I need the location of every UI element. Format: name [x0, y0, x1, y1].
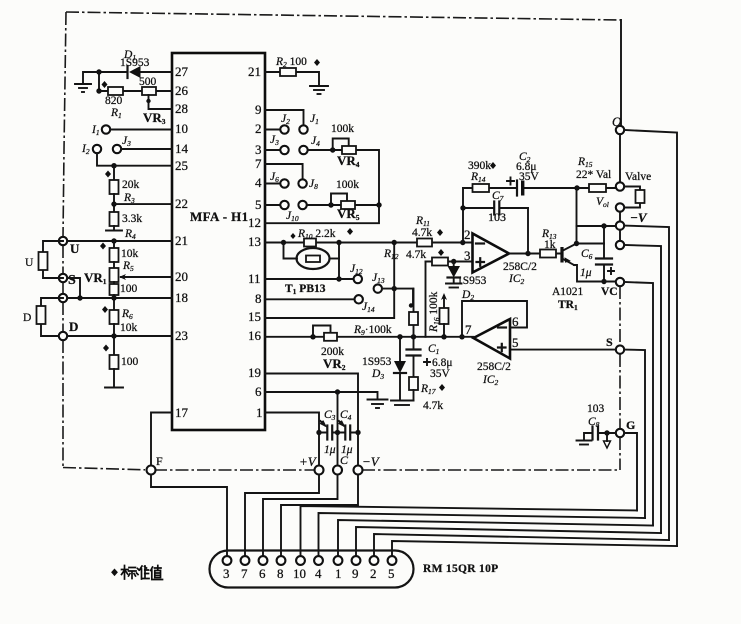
svg-text:MFA - H1: MFA - H1	[190, 209, 249, 224]
wire to ground (pin27)	[83, 72, 99, 84]
svg-text:16: 16	[248, 328, 262, 343]
capacitor C8 103	[593, 427, 599, 440]
wire valve bottom to -V terminal	[619, 212, 621, 222]
junction VR5 right	[376, 202, 381, 207]
wire 100 to pin18 row	[113, 295, 115, 310]
junction op1 output	[525, 251, 530, 256]
wire F to connector pin3	[151, 475, 227, 557]
wire J13 to net	[382, 289, 413, 305]
svg-text:S: S	[606, 335, 613, 349]
svg-text:13: 13	[248, 234, 261, 249]
svg-text:R10 2.2k: R10 2.2k	[297, 228, 336, 241]
junction T1 right	[336, 240, 341, 245]
svg-text:11: 11	[248, 271, 261, 286]
svg-text:U: U	[70, 241, 80, 256]
junction caps row mid	[335, 430, 340, 435]
terminal J10	[298, 201, 306, 209]
test point arrowhead	[604, 441, 611, 448]
connector pin 1	[334, 556, 343, 565]
svg-text:2: 2	[255, 121, 262, 136]
svg-text:21: 21	[175, 233, 188, 248]
wire C6 vertical top	[603, 226, 605, 258]
wire R14 row	[463, 187, 577, 189]
op2 minus sign	[498, 326, 506, 328]
wire pin22 row	[114, 203, 172, 205]
svg-text:1S953: 1S953	[457, 275, 487, 287]
svg-text:18: 18	[175, 290, 188, 305]
svg-text:R9·100k: R9·100k	[353, 324, 392, 337]
connector pin 10	[296, 556, 305, 565]
junction C7 left	[460, 205, 465, 210]
terminal J3	[113, 145, 121, 153]
wire C1 chain	[413, 337, 415, 349]
svg-text:4: 4	[255, 175, 262, 190]
svg-text:4.7k: 4.7k	[406, 249, 426, 261]
enclosure boundary right (lower part)	[619, 286, 621, 345]
svg-text:10k: 10k	[120, 322, 138, 334]
junction op1 pin2	[460, 240, 465, 245]
op-amp IC2b	[474, 319, 511, 359]
standard-value mark (R12)	[438, 249, 444, 256]
enclosure boundary top	[66, 12, 621, 20]
wire connector pin10 to G	[301, 506, 638, 556]
svg-text:5: 5	[388, 566, 395, 581]
svg-text:Valve: Valve	[625, 171, 651, 183]
diode D2 1S953	[448, 262, 461, 284]
svg-text:1μ: 1μ	[324, 444, 336, 456]
resistor R13 1k	[540, 250, 556, 258]
wire +V to connector pin7	[245, 475, 319, 557]
IC U1 MFA-H1 body	[172, 53, 265, 430]
wire pin21R row	[265, 72, 319, 85]
capacitor C2 6.8u	[517, 181, 524, 196]
wire R16 arrow	[443, 296, 445, 308]
wire pin10 row	[110, 129, 172, 131]
connector pin 5	[388, 556, 397, 565]
wire connector pin1 to VC	[338, 520, 653, 556]
polarity arrow (C3)	[321, 421, 326, 426]
junction pin23 chain	[111, 333, 116, 338]
svg-text:RM 15QR 10P: RM 15QR 10P	[423, 563, 498, 575]
VR5 wiper loop	[331, 194, 347, 206]
junction VR5 wiper	[328, 202, 333, 207]
svg-text:26: 26	[175, 83, 189, 98]
terminal J12	[354, 275, 362, 283]
svg-text:28: 28	[175, 101, 188, 116]
svg-text:T1 PB13: T1 PB13	[285, 283, 326, 296]
svg-text:F: F	[156, 454, 163, 468]
svg-text:35V: 35V	[430, 368, 451, 380]
wire C-net vertical	[337, 392, 339, 466]
terminal J14	[355, 295, 363, 303]
wire I2 down to pin25 row	[97, 153, 114, 166]
svg-text:15: 15	[248, 309, 261, 324]
wire 100 to ground	[113, 369, 115, 387]
resistor R11 4.7k*	[417, 239, 432, 247]
svg-text:R2 100: R2 100	[275, 56, 307, 69]
standard-value mark (R6)	[102, 306, 108, 313]
svg-text:3.3k: 3.3k	[122, 213, 142, 225]
arrowhead R16	[441, 293, 447, 300]
svg-text:4.7k: 4.7k	[412, 227, 432, 239]
ground (D2)	[446, 284, 462, 288]
junction T1 left	[281, 240, 286, 245]
junction pin11 row	[336, 276, 341, 281]
junction D3 top	[397, 334, 402, 339]
resistor R9 100k (vertical)	[409, 289, 418, 337]
wire G row left to C8	[599, 432, 616, 434]
capacitor C3 1u	[327, 426, 332, 440]
wire pin4 row	[265, 183, 280, 185]
wire S to pin18 row	[67, 278, 80, 298]
svg-text:8: 8	[255, 291, 262, 306]
junction S-branch	[77, 295, 82, 300]
resistor R10 2.2k*	[304, 239, 316, 247]
wire pin3 row	[265, 149, 280, 151]
svg-text:25: 25	[175, 158, 188, 173]
wire -V terminal right to nest	[624, 226, 669, 540]
svg-text:258C/2: 258C/2	[503, 261, 537, 273]
wire VC right to nest	[624, 282, 653, 526]
wire J13 down to pin15 row	[265, 289, 394, 318]
resonator T1 PB13	[297, 248, 330, 269]
svg-text:O: O	[612, 114, 622, 129]
svg-text:9: 9	[255, 102, 262, 117]
wiper dot VR3	[146, 99, 150, 103]
wire op1 output	[509, 253, 540, 255]
wire pin14 row	[121, 148, 172, 150]
wire C1 to R17	[413, 356, 415, 378]
ground (R4)	[106, 230, 122, 232]
standard-value mark (R1)	[102, 81, 108, 88]
terminal I1	[102, 125, 110, 133]
wire S row to op2	[510, 349, 616, 351]
svg-text:258C/2: 258C/2	[477, 361, 511, 373]
ground (D3/R17)	[391, 401, 414, 406]
svg-text:22* Val: 22* Val	[576, 169, 611, 181]
terminal valve bottom	[616, 203, 624, 211]
wire pin17 to F	[151, 413, 172, 467]
terminal I2	[93, 145, 101, 153]
svg-text:1k: 1k	[544, 239, 556, 251]
wire C to connector pin6	[263, 475, 338, 557]
ground (C8)	[577, 441, 592, 445]
junction pin13/J13 vertical	[392, 240, 397, 245]
enclosure boundary left	[63, 12, 66, 237]
resistor R12 4.7k*	[432, 258, 448, 266]
op-amp IC2a	[473, 234, 510, 273]
potentiometer VR4 100k	[342, 146, 356, 154]
junction pin27/ground	[96, 69, 101, 74]
wire VR1 to 100	[113, 282, 115, 284]
wire R4 to ground	[113, 226, 115, 230]
wire pin6 row	[265, 392, 378, 399]
terminal U	[59, 237, 67, 245]
plus mark (C2)	[507, 178, 514, 185]
op1 plus sign	[477, 258, 485, 266]
svg-text:22: 22	[175, 196, 188, 211]
svg-text:6: 6	[255, 384, 262, 399]
junction R15 left	[574, 185, 579, 190]
wire pin11 row	[265, 278, 354, 280]
junction op2 output	[459, 334, 464, 339]
svg-text:1: 1	[256, 405, 263, 420]
connector pin 9	[352, 556, 361, 565]
junction collector row	[574, 241, 579, 246]
junction R16 bottom	[441, 334, 446, 339]
wire pin12 row	[265, 205, 379, 223]
svg-text:10: 10	[293, 566, 306, 581]
wire O to right nest	[624, 130, 677, 546]
ground (top-left)	[75, 84, 91, 92]
standard-value mark (R5)	[100, 243, 106, 250]
wire pin13 to J13 vertical	[393, 243, 395, 289]
terminal -V bottom	[354, 466, 363, 475]
svg-text:VC: VC	[601, 286, 618, 298]
resistor R3 20k	[110, 180, 119, 194]
capacitor C4 1u	[345, 426, 350, 440]
wire -V node row	[577, 225, 616, 227]
wire connector pin4 to S	[319, 513, 646, 556]
resistor D (left of boundary)	[37, 298, 64, 336]
VR2 wiper loop	[313, 326, 331, 337]
svg-text:20: 20	[175, 269, 188, 284]
potentiometer VR3 500	[142, 87, 156, 95]
wire R15 row	[577, 187, 616, 189]
standard-value mark (R11)	[437, 229, 443, 236]
ground (pin6)	[368, 400, 388, 409]
connector pin 2	[370, 556, 379, 565]
svg-text:A1021: A1021	[552, 286, 584, 298]
connector pin 8	[277, 556, 286, 565]
connector pin 7	[241, 556, 250, 565]
diode D1 1S953	[128, 66, 141, 78]
terminal -V right	[616, 221, 624, 229]
wire pin8 row	[265, 298, 355, 300]
terminal O	[616, 126, 624, 134]
standard-value mark (R14)	[490, 162, 496, 169]
svg-text:21: 21	[248, 64, 261, 79]
svg-text:100: 100	[120, 283, 138, 295]
wire junction down to pin26 row	[98, 72, 100, 91]
standard-value mark (R2)	[314, 59, 320, 66]
wire S right to nest	[624, 350, 645, 518]
wire pin18 row	[67, 297, 172, 299]
op2 plus sign	[498, 344, 506, 351]
standard-value mark (R10 left)	[290, 233, 295, 239]
resistor R1 820	[108, 87, 123, 95]
svg-text:17: 17	[175, 405, 189, 420]
svg-text:35V: 35V	[519, 171, 540, 183]
svg-text:5: 5	[255, 197, 262, 212]
svg-text:100k: 100k	[336, 179, 359, 191]
enclosure boundary bottom	[63, 468, 145, 470]
transistor TR1 A1021	[562, 244, 577, 266]
terminal D	[59, 332, 67, 340]
wire pin25 row	[114, 165, 172, 167]
wire J4 to VR4	[308, 150, 379, 205]
wire pin13 row	[265, 242, 473, 244]
svg-text:100k: 100k	[331, 123, 354, 135]
resistor R4 3.3k	[110, 212, 119, 226]
wire -V to connector pin8	[281, 475, 358, 557]
wire pin26 row	[99, 90, 172, 92]
wire pin9 row	[265, 110, 304, 125]
svg-text:−V: −V	[362, 454, 381, 469]
wire pin25 junction down to R3	[113, 166, 115, 180]
terminal valve top	[616, 182, 624, 190]
wire R3 to pin22 junction	[113, 194, 115, 212]
VR1 wiper wire to pin20	[121, 276, 172, 278]
svg-text:5: 5	[512, 335, 519, 350]
trimmer R16 100k	[440, 308, 449, 337]
standard-value mark (R17)	[439, 384, 445, 391]
wire R13 row	[540, 253, 562, 255]
junction pin18 chain	[111, 295, 116, 300]
resistor R14 390k*	[473, 184, 490, 192]
ground (bottom 100)	[105, 387, 123, 389]
svg-text:6: 6	[259, 566, 266, 581]
wire pin7 row	[265, 164, 303, 179]
junction C6 top	[601, 223, 606, 228]
wire G right to nest	[624, 433, 637, 511]
ground (R2)	[310, 86, 328, 94]
terminal VC	[616, 278, 624, 286]
wire collector up to R15 row	[576, 188, 578, 244]
resistor R17 4.7k	[409, 377, 418, 390]
wire caps row	[319, 432, 358, 434]
svg-text:820: 820	[105, 95, 123, 107]
terminal G	[616, 429, 624, 437]
junction VC row	[601, 279, 606, 284]
junction C8 arrow	[604, 430, 609, 435]
terminal (D loop upper)	[59, 294, 67, 302]
wire C7 feedback row	[463, 188, 528, 243]
standard-value mark (R10)	[347, 228, 353, 235]
diode D3 1S953	[394, 337, 406, 400]
standard-value legend mark	[111, 569, 118, 577]
terminal C	[333, 466, 342, 475]
wire O net top	[620, 20, 621, 182]
svg-text:G: G	[626, 418, 635, 432]
wire pin2 row	[265, 129, 280, 131]
wire R17 to ground rail	[413, 390, 415, 401]
potentiometer VR1	[110, 268, 119, 282]
svg-text:4.7k: 4.7k	[423, 400, 443, 412]
test point arrow (G)	[606, 433, 608, 441]
terminal +V	[315, 466, 324, 475]
connector pin 6	[259, 556, 268, 565]
wire R6 to pin23 row	[113, 324, 115, 355]
wire -V vertical	[357, 433, 359, 466]
wire pin23 row	[67, 335, 172, 337]
polarity arrow (C4)	[339, 421, 344, 426]
svg-text:9: 9	[352, 566, 359, 581]
wire J10 to VR5	[307, 204, 379, 206]
svg-text:+V: +V	[299, 454, 318, 469]
junction VR4 wiper	[330, 147, 335, 152]
VR4 wiper loop	[333, 139, 349, 151]
legend text biao zhun zhi (drawn strokes)	[122, 566, 163, 580]
op1 minus sign	[476, 242, 484, 244]
svg-text:−V: −V	[630, 210, 648, 225]
terminal J8	[298, 179, 306, 187]
terminal J4	[299, 146, 307, 154]
terminal J13	[374, 284, 382, 292]
svg-text:12: 12	[248, 215, 261, 230]
connector pin 4	[314, 556, 323, 565]
capacitor C1 6.8u	[407, 350, 421, 356]
svg-text:D: D	[23, 312, 31, 324]
wire C6 bottom to VC row	[603, 265, 605, 282]
terminal F	[147, 466, 156, 475]
wire pin27 row	[99, 71, 172, 73]
wire C8 to ground	[584, 433, 593, 440]
capacitor C6 1u	[596, 259, 612, 265]
svg-text:D: D	[69, 319, 78, 334]
wire R12 row	[426, 261, 473, 263]
VR3 wiper to pin28	[149, 95, 173, 109]
wire connector pin5 to O	[392, 541, 677, 556]
terminal J9	[280, 201, 288, 209]
svg-text:1S953: 1S953	[120, 57, 150, 69]
standard-value mark (R9)	[409, 303, 413, 307]
resistor R2 100*	[280, 68, 296, 76]
resistor 100 (VR1 bottom)	[110, 284, 119, 295]
junction J13	[392, 286, 397, 291]
svg-text:7: 7	[255, 156, 262, 171]
wire connector pin9 to n2	[356, 527, 661, 556]
svg-text:500: 500	[139, 76, 157, 88]
junction D2 anode	[451, 259, 456, 264]
svg-text:U: U	[25, 257, 34, 269]
svg-text:R16 100k: R16 100k	[428, 291, 441, 333]
terminal J6	[280, 179, 288, 187]
junction C1 top	[411, 334, 416, 339]
svg-text:1μ: 1μ	[580, 267, 592, 279]
standard-value mark (R3)	[105, 171, 111, 178]
junction caps row right	[355, 430, 360, 435]
valve coil symbol	[624, 187, 644, 208]
svg-text:7: 7	[465, 322, 472, 337]
wire R5 to VR1	[113, 262, 115, 268]
wire collector row to C6	[577, 243, 605, 245]
potentiometer VR5 100k	[341, 201, 355, 209]
wire T1 left leg	[284, 243, 298, 259]
junction pin6/C row	[335, 389, 340, 394]
wire pin21 row	[67, 240, 172, 242]
wire R12 feed vertical	[425, 262, 427, 337]
svg-text:10k: 10k	[121, 248, 139, 260]
junction VR2 left	[310, 334, 315, 339]
wire pin16 row (op2 output row)	[265, 336, 474, 338]
capacitor C7 103	[494, 202, 499, 215]
plus mark (C1)	[424, 359, 430, 365]
wire emitter to VC	[574, 265, 616, 282]
junction pin21 chain	[111, 238, 116, 243]
standard-value mark (100 bottom)	[103, 345, 109, 352]
wire feedback vertical (output)	[527, 208, 529, 254]
svg-text:10: 10	[175, 121, 188, 136]
wire n2 right to nest	[624, 245, 661, 533]
resistor R5 10k	[110, 248, 119, 262]
svg-text:3: 3	[464, 248, 471, 263]
svg-text:3: 3	[255, 142, 262, 157]
svg-text:1S953: 1S953	[362, 356, 392, 368]
svg-text:19: 19	[248, 365, 261, 380]
svg-text:3: 3	[223, 566, 230, 581]
terminal n2	[616, 241, 624, 249]
